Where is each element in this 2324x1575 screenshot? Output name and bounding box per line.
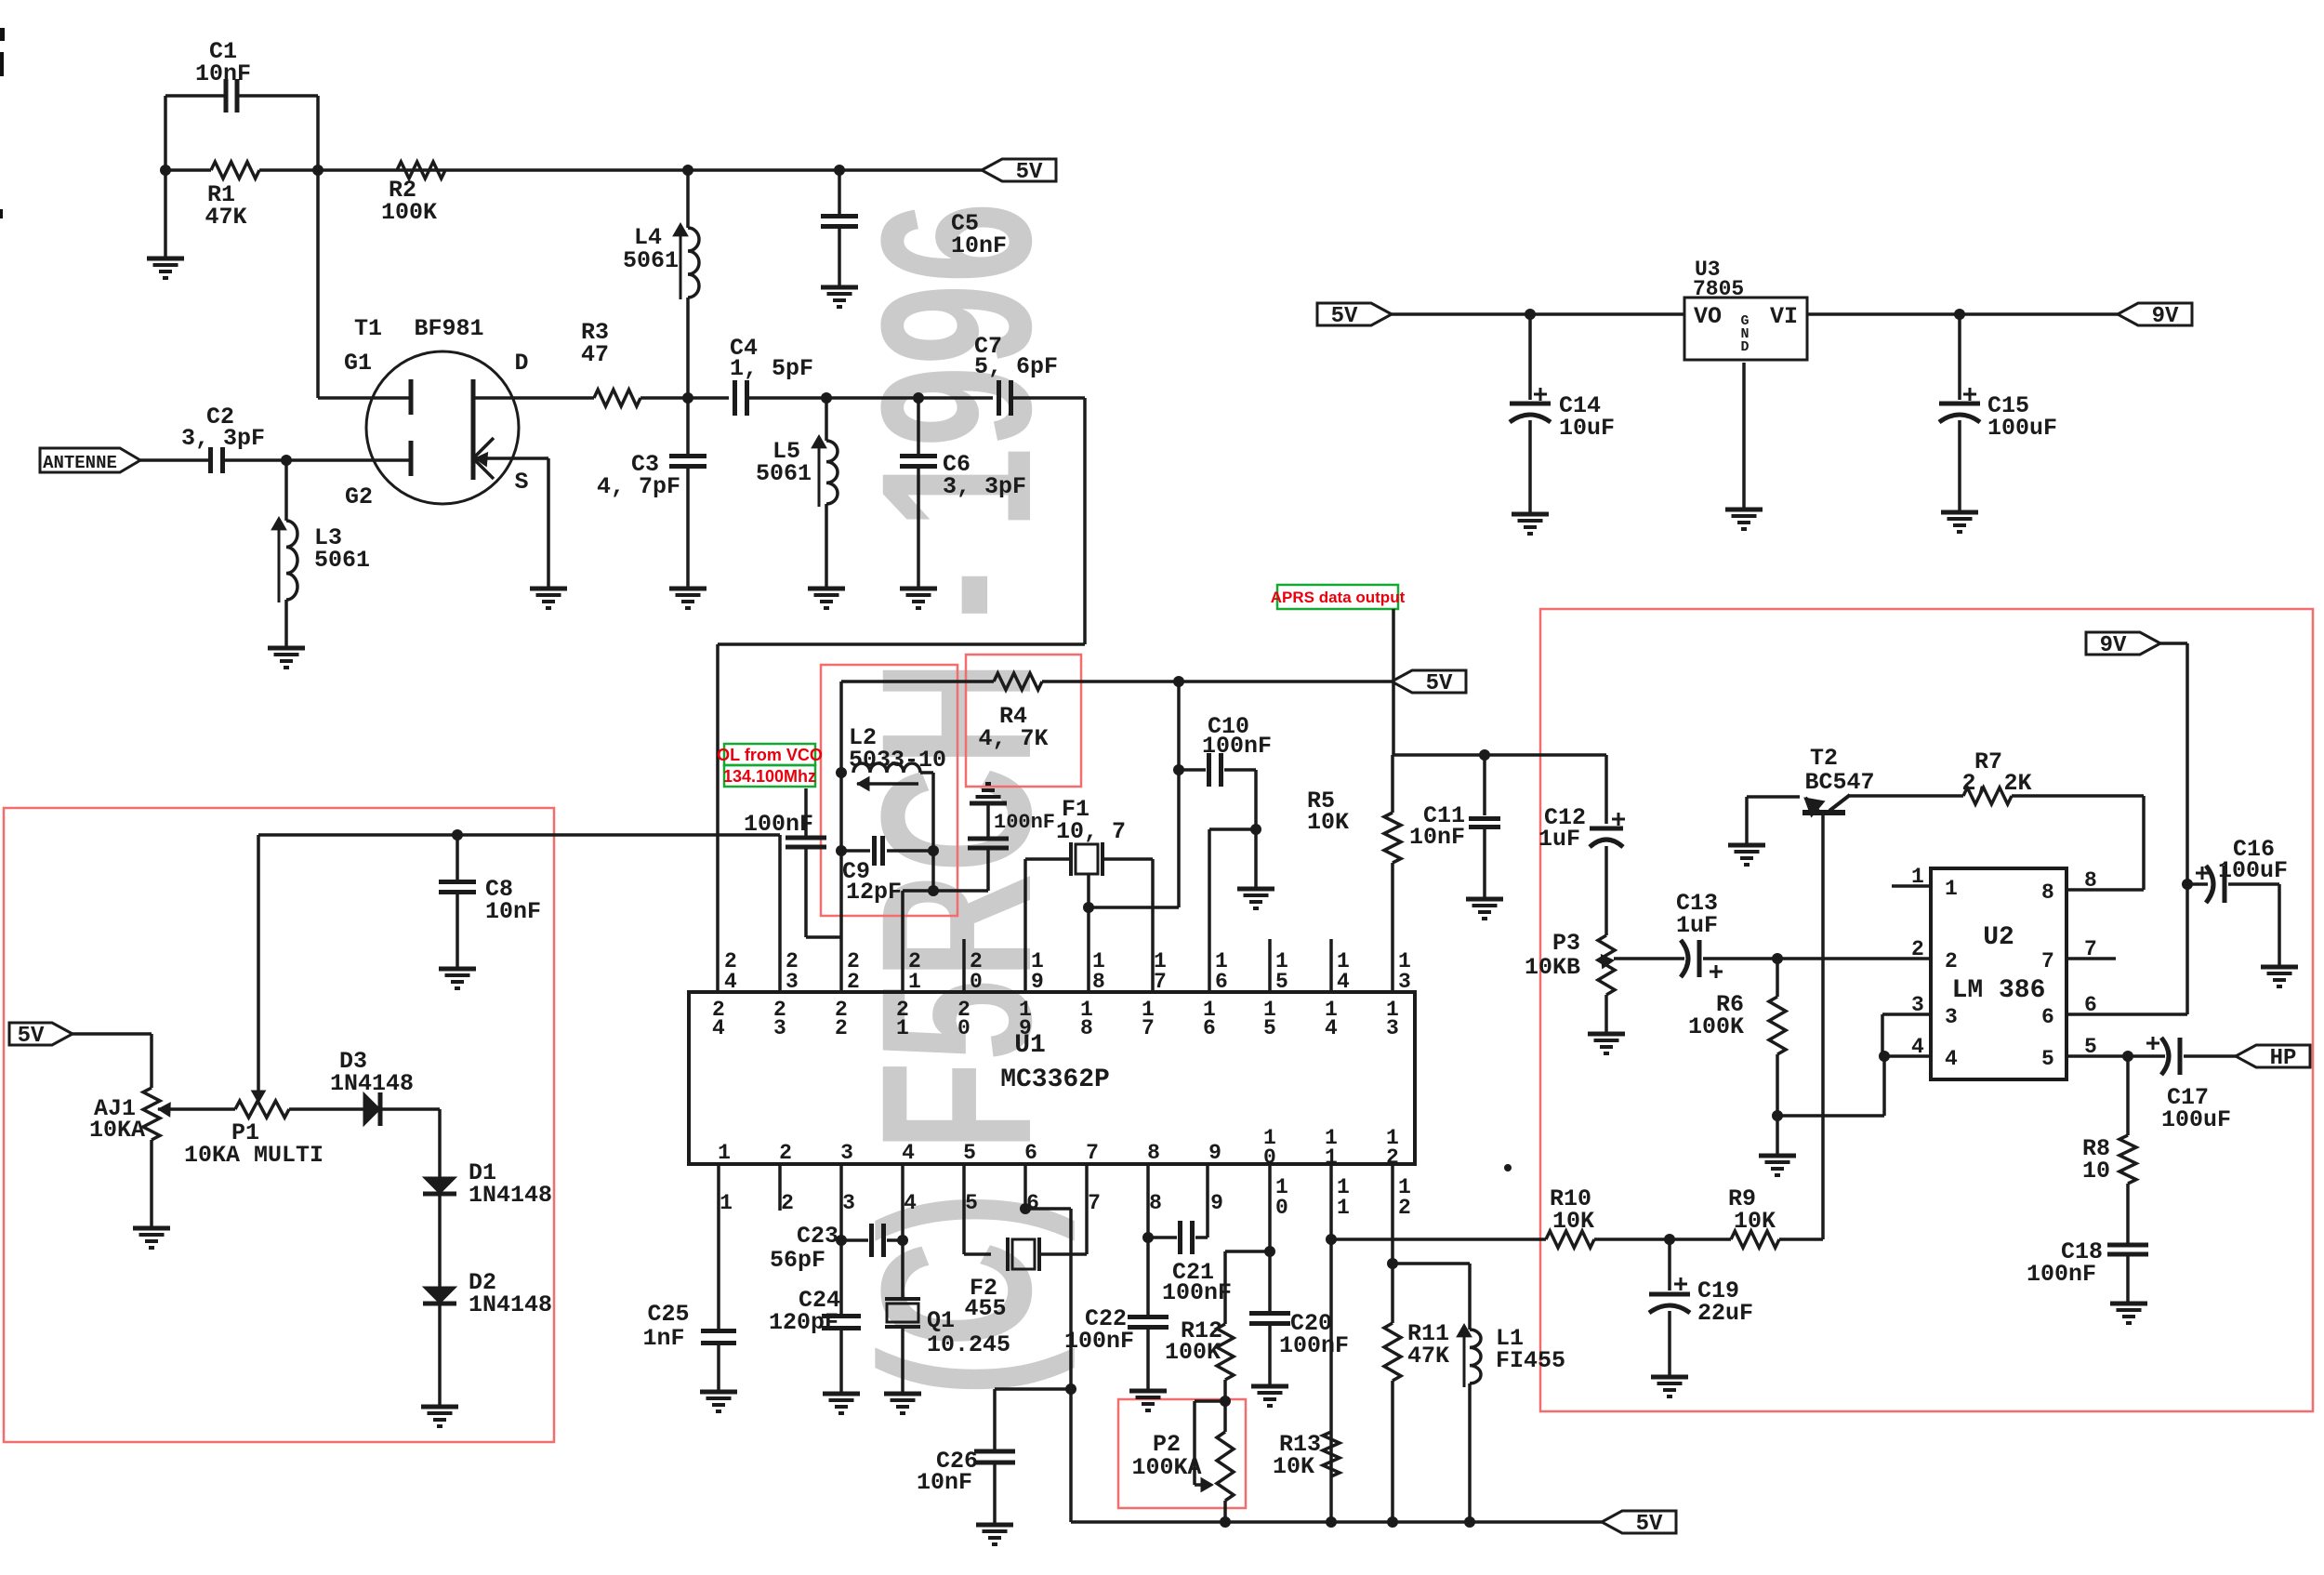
- svg-text:10.245: 10.245: [927, 1331, 1010, 1358]
- svg-text:3: 3: [1386, 1016, 1399, 1040]
- svg-text:3: 3: [786, 970, 799, 994]
- svg-text:4: 4: [1945, 1047, 1958, 1071]
- svg-text:T1: T1: [354, 315, 382, 342]
- svg-text:8: 8: [1147, 1141, 1160, 1165]
- svg-text:56pF: 56pF: [770, 1247, 825, 1274]
- svg-text:9: 9: [1208, 1141, 1221, 1165]
- svg-text:1N4148: 1N4148: [469, 1291, 552, 1318]
- svg-text:D: D: [514, 350, 528, 377]
- svg-text:10nF: 10nF: [485, 898, 541, 925]
- svg-text:8: 8: [1092, 970, 1105, 994]
- svg-text:APRS data output: APRS data output: [1271, 589, 1406, 606]
- svg-text:100K: 100K: [1165, 1339, 1221, 1366]
- svg-text:4: 4: [904, 1191, 917, 1215]
- svg-text:G2: G2: [345, 483, 373, 510]
- svg-text:D: D: [1740, 339, 1749, 355]
- svg-text:12pF: 12pF: [846, 879, 902, 906]
- svg-text:100uF: 100uF: [2218, 857, 2288, 884]
- svg-text:5V: 5V: [1636, 1512, 1663, 1537]
- svg-text:LM 386: LM 386: [1952, 976, 2046, 1005]
- svg-text:U2: U2: [1983, 923, 2014, 952]
- svg-text:1: 1: [720, 1191, 733, 1215]
- svg-text:6: 6: [1215, 970, 1228, 994]
- svg-text:5: 5: [963, 1141, 976, 1165]
- svg-text:10nF: 10nF: [1409, 824, 1465, 851]
- svg-text:7: 7: [1088, 1191, 1101, 1215]
- svg-text:1: 1: [718, 1141, 731, 1165]
- svg-text:1, 5pF: 1, 5pF: [730, 355, 813, 382]
- svg-text:4: 4: [902, 1141, 915, 1165]
- svg-text:2: 2: [781, 1191, 794, 1215]
- svg-text:455: 455: [964, 1295, 1006, 1322]
- svg-text:3: 3: [1945, 1005, 1958, 1029]
- svg-text:100nF: 100nF: [744, 811, 813, 838]
- svg-text:2: 2: [1945, 949, 1958, 973]
- svg-text:Q1: Q1: [927, 1307, 955, 1334]
- svg-text:22uF: 22uF: [1697, 1300, 1753, 1327]
- svg-text:5061: 5061: [623, 247, 679, 274]
- svg-text:9: 9: [1031, 970, 1044, 994]
- svg-text:8: 8: [2041, 880, 2054, 905]
- svg-text:4: 4: [724, 970, 737, 994]
- svg-text:10nF: 10nF: [195, 60, 251, 87]
- svg-text:OL from VCO: OL from VCO: [717, 746, 823, 764]
- svg-text:120pF: 120pF: [769, 1309, 838, 1336]
- svg-text:5033-10: 5033-10: [849, 747, 946, 774]
- svg-text:9: 9: [1019, 1016, 1032, 1040]
- svg-text:3: 3: [842, 1191, 855, 1215]
- svg-text:10KB: 10KB: [1525, 954, 1580, 981]
- svg-text:0: 0: [1275, 1196, 1288, 1220]
- svg-text:100nF: 100nF: [1202, 733, 1272, 760]
- svg-text:MC3362P: MC3362P: [1000, 1065, 1110, 1094]
- svg-text:10nF: 10nF: [917, 1469, 972, 1496]
- svg-text:3: 3: [840, 1141, 853, 1165]
- svg-text:4, 7K: 4, 7K: [978, 725, 1048, 752]
- svg-text:8: 8: [1149, 1191, 1162, 1215]
- svg-text:4: 4: [1337, 970, 1350, 994]
- svg-text:8: 8: [1080, 1016, 1093, 1040]
- svg-text:S: S: [514, 469, 528, 496]
- svg-text:6: 6: [2041, 1005, 2054, 1029]
- svg-text:4: 4: [712, 1016, 725, 1040]
- svg-text:7: 7: [1142, 1016, 1155, 1040]
- svg-text:3: 3: [773, 1016, 786, 1040]
- svg-text:10K: 10K: [1734, 1208, 1776, 1235]
- svg-text:5: 5: [965, 1191, 978, 1215]
- svg-text:4, 7pF: 4, 7pF: [597, 473, 680, 500]
- svg-text:10: 10: [2082, 1158, 2110, 1185]
- svg-text:1: 1: [896, 1016, 909, 1040]
- svg-text:3: 3: [1911, 993, 1924, 1017]
- svg-text:5: 5: [1263, 1016, 1276, 1040]
- svg-text:BF981: BF981: [414, 315, 483, 342]
- svg-text:5: 5: [1275, 970, 1288, 994]
- svg-text:T2: T2: [1810, 745, 1838, 772]
- svg-text:5061: 5061: [756, 460, 812, 487]
- svg-text:100uF: 100uF: [2161, 1106, 2231, 1133]
- svg-text:3, 3pF: 3, 3pF: [943, 473, 1026, 500]
- svg-text:4: 4: [1911, 1035, 1924, 1059]
- svg-text:1: 1: [1337, 1196, 1350, 1220]
- svg-text:C23: C23: [797, 1223, 838, 1250]
- svg-text:100K: 100K: [381, 199, 437, 226]
- svg-text:G1: G1: [344, 350, 372, 377]
- svg-text:8: 8: [2084, 868, 2097, 893]
- svg-text:10nF: 10nF: [951, 232, 1007, 259]
- svg-text:2: 2: [847, 970, 860, 994]
- svg-text:10KA: 10KA: [89, 1117, 145, 1144]
- svg-text:P3: P3: [1552, 930, 1580, 957]
- svg-text:0: 0: [970, 970, 983, 994]
- svg-text:10uF: 10uF: [1559, 415, 1615, 442]
- svg-text:100K: 100K: [1688, 1013, 1744, 1040]
- svg-text:2: 2: [779, 1141, 792, 1165]
- svg-text:134.100Mhz: 134.100Mhz: [723, 767, 816, 786]
- svg-text:7: 7: [2041, 949, 2054, 973]
- svg-text:10KA MULTI: 10KA MULTI: [184, 1142, 324, 1169]
- svg-text:4: 4: [1325, 1016, 1338, 1040]
- svg-text:5, 6pF: 5, 6pF: [974, 353, 1058, 380]
- svg-text:ANTENNE: ANTENNE: [43, 453, 117, 473]
- svg-text:100nF: 100nF: [1279, 1332, 1349, 1359]
- svg-text:47: 47: [581, 341, 609, 368]
- svg-text:10K: 10K: [1273, 1453, 1314, 1480]
- svg-text:5V: 5V: [1016, 160, 1043, 185]
- svg-text:5V: 5V: [1331, 304, 1358, 329]
- svg-text:1uF: 1uF: [1676, 912, 1718, 939]
- svg-text:7805: 7805: [1693, 277, 1744, 301]
- svg-text:6: 6: [1203, 1016, 1216, 1040]
- svg-text:47K: 47K: [1407, 1343, 1449, 1370]
- svg-text:100nF: 100nF: [2027, 1261, 2096, 1288]
- svg-text:1N4148: 1N4148: [469, 1182, 552, 1209]
- svg-text:5V: 5V: [18, 1024, 45, 1049]
- svg-text:7: 7: [1086, 1141, 1099, 1165]
- svg-text:3: 3: [1398, 970, 1411, 994]
- svg-text:10, 7: 10, 7: [1056, 818, 1126, 845]
- svg-text:2: 2: [1398, 1196, 1411, 1220]
- svg-text:1: 1: [908, 970, 921, 994]
- svg-text:(C) F5RCH - 1996: (C) F5RCH - 1996: [837, 202, 1076, 1396]
- svg-text:C25: C25: [647, 1301, 689, 1328]
- svg-text:2: 2: [1911, 937, 1924, 961]
- svg-text:100nF: 100nF: [994, 811, 1055, 834]
- svg-text:100uF: 100uF: [1987, 415, 2057, 442]
- svg-text:5061: 5061: [314, 547, 370, 574]
- svg-text:9V: 9V: [2152, 304, 2179, 329]
- svg-text:9V: 9V: [2100, 633, 2127, 658]
- svg-text:100nF: 100nF: [1064, 1328, 1134, 1355]
- svg-text:2: 2: [835, 1016, 848, 1040]
- svg-text:1N4148: 1N4148: [330, 1070, 414, 1097]
- svg-text:1: 1: [1945, 877, 1958, 901]
- svg-text:2, 2K: 2, 2K: [1961, 770, 2031, 797]
- svg-text:5V: 5V: [1426, 671, 1453, 696]
- svg-text:BC547: BC547: [1804, 769, 1874, 796]
- svg-text:1uF: 1uF: [1538, 826, 1580, 853]
- svg-text:7: 7: [1154, 970, 1167, 994]
- svg-text:47K: 47K: [205, 204, 246, 231]
- svg-text:3, 3pF: 3, 3pF: [181, 425, 265, 452]
- svg-text:10K: 10K: [1552, 1208, 1594, 1235]
- svg-text:FI455: FI455: [1496, 1347, 1565, 1374]
- svg-text:100nF: 100nF: [1162, 1279, 1232, 1306]
- svg-text:0: 0: [957, 1016, 971, 1040]
- svg-text:1nF: 1nF: [642, 1325, 684, 1352]
- svg-text:100KA: 100KA: [1131, 1454, 1201, 1481]
- svg-text:HP: HP: [2270, 1046, 2297, 1071]
- svg-text:VO: VO: [1694, 303, 1722, 330]
- svg-text:6: 6: [1024, 1141, 1037, 1165]
- svg-text:10K: 10K: [1307, 809, 1349, 836]
- svg-text:5: 5: [2041, 1047, 2054, 1071]
- svg-text:9: 9: [1210, 1191, 1223, 1215]
- svg-text:VI: VI: [1770, 303, 1798, 330]
